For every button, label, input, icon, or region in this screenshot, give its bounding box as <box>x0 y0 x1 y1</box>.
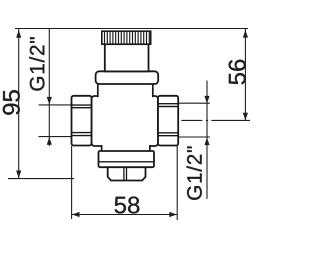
dim 95 line <box>18 29 20 178</box>
label 58 <box>115 197 140 214</box>
hex nut right <box>158 96 178 146</box>
label G1/2 right <box>187 146 202 199</box>
label G1/2 left <box>29 37 44 90</box>
neck under flange <box>99 83 152 98</box>
dim G1/2 right arrows <box>204 96 209 104</box>
dim G1/2 left arrows <box>47 97 52 105</box>
bottom stack neck <box>103 145 150 154</box>
dim 58 line <box>72 214 177 216</box>
bottom band <box>99 151 155 167</box>
right port centerline (dash-dot) <box>181 119 250 121</box>
flange <box>96 71 159 84</box>
dim G1/2 right line <box>206 81 208 200</box>
dim 56 line <box>244 29 246 120</box>
knurled cap <box>102 31 151 44</box>
dim 95 bottom extension line <box>8 178 74 180</box>
label 95 <box>3 90 20 115</box>
top extension line <box>15 28 248 30</box>
dim G1/2 left line <box>48 29 50 147</box>
hex plug facet line <box>124 167 127 180</box>
body center <box>92 96 159 146</box>
bottom band inner line <box>99 161 155 163</box>
valve body <box>72 31 179 180</box>
dim 58 arrows <box>72 212 80 217</box>
bonnet cylinder <box>105 44 149 71</box>
dim 95 arrows <box>16 30 21 38</box>
label 56 <box>229 60 246 85</box>
dim 58 extension lines <box>72 146 178 220</box>
right port extension lines <box>178 103 210 137</box>
hex nut left <box>72 96 92 146</box>
dim 56 arrows <box>243 30 248 37</box>
bottom hex plug <box>108 164 146 181</box>
left port extension lines <box>39 105 72 137</box>
